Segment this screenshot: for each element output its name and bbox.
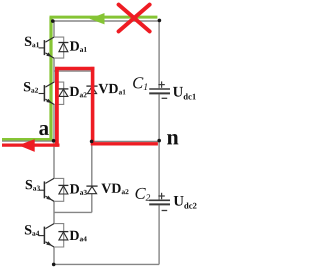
wire clamp column above VDa1 [91, 71, 93, 86]
label Da1 [70, 41, 87, 52]
wire main column Sa4 to bottom rail [53, 247, 55, 264]
wire right rail upper (top to C1) [158, 21, 160, 88]
node junction bottom-left [52, 263, 56, 267]
label Da3 [70, 184, 87, 195]
green current path along top rail [50, 16, 158, 19]
label C1 [133, 77, 147, 90]
diode Da2 branch loop [54, 82, 64, 104]
transistor Sa2 (IGBT) [39, 82, 54, 104]
wire neutral from clamp midpoint to node n [92, 140, 159, 142]
red X cross-out mark on green path [119, 5, 150, 32]
diode Da4 [58, 232, 68, 240]
wire output lead at node a [2, 140, 54, 142]
wire main column Sa2 through node a to Sa3 [53, 104, 55, 178]
wire clamp column below VDa2 [91, 194, 93, 213]
circuit schematic: three-level NPC inverter phase leg [0, 0, 203, 269]
green current path arrow (pointing left) [90, 13, 105, 24]
node n label [167, 134, 178, 144]
red current path at node a (to load) [2, 143, 60, 146]
red current path vertical through Sa2 [55, 67, 59, 147]
node clamp-neutral junction [90, 140, 94, 144]
diode VDa2 (clamp) [86, 186, 97, 194]
wire right rail C1 to C2 through node n [158, 94, 160, 199]
red current path vertical through VDa1 [91, 67, 95, 145]
wire right rail lower (C2 to bottom) [158, 205, 160, 264]
node a label [39, 125, 49, 135]
wire main column Sa3 to Sa4 [53, 201, 55, 223]
green current path vertical along switch column [49, 17, 52, 140]
wire clamp bottom (VDa2 to Sa3/Sa4 junction) [54, 211, 92, 213]
diode Da4 branch loop [54, 224, 64, 247]
label Da4 [70, 231, 87, 242]
label Sa3 [26, 180, 40, 191]
diode Da3 branch loop [54, 178, 64, 201]
label VDa1 [99, 84, 126, 95]
wire clamp column VDa1 to VDa2 [91, 94, 93, 187]
node junction top-right [158, 19, 162, 23]
diode Da1 [58, 43, 68, 52]
label Udc2 [174, 196, 197, 209]
capacitor C1 polarity - sign [162, 97, 168, 99]
transistor Sa1 (IGBT) [39, 37, 54, 58]
label Sa2 [24, 82, 38, 93]
red current path along clamp top wire [55, 67, 94, 70]
label Sa1 [25, 37, 39, 48]
node a junction [52, 139, 56, 143]
diode Da2 [58, 89, 68, 97]
capacitor C2 polarity - sign [162, 210, 168, 212]
diode VDa1 (clamp) [86, 86, 97, 94]
transistor Sa3 (IGBT) [39, 178, 54, 201]
label VDa2 [101, 184, 128, 195]
label Sa4 [25, 225, 39, 236]
label Da2 [70, 87, 87, 98]
label Udc1 [173, 87, 196, 100]
node junction top-left [51, 19, 55, 23]
capacitor C2 plates [149, 200, 170, 204]
diode Da1 branch loop [54, 37, 64, 58]
capacitor C1 plates [149, 89, 170, 93]
wire main column top rail to Sa1 [53, 21, 55, 37]
green current path at node a [2, 138, 53, 141]
label C2 [136, 188, 151, 201]
red current path along neutral wire to node n [91, 142, 158, 145]
diode Da3 [58, 185, 68, 194]
wire top rail [54, 20, 159, 22]
transistor Sa4 (IGBT) [39, 224, 54, 247]
wire bottom rail [54, 263, 159, 265]
capacitor C1 polarity + sign [158, 81, 164, 87]
red current path arrow (pointing left) [19, 139, 35, 152]
node n junction [157, 139, 161, 143]
wire main column Sa1 to Sa2 [53, 58, 55, 82]
wire clamp top (Sa1/Sa2 junction to VDa1) [54, 70, 92, 72]
capacitor C2 polarity + sign [158, 193, 164, 199]
